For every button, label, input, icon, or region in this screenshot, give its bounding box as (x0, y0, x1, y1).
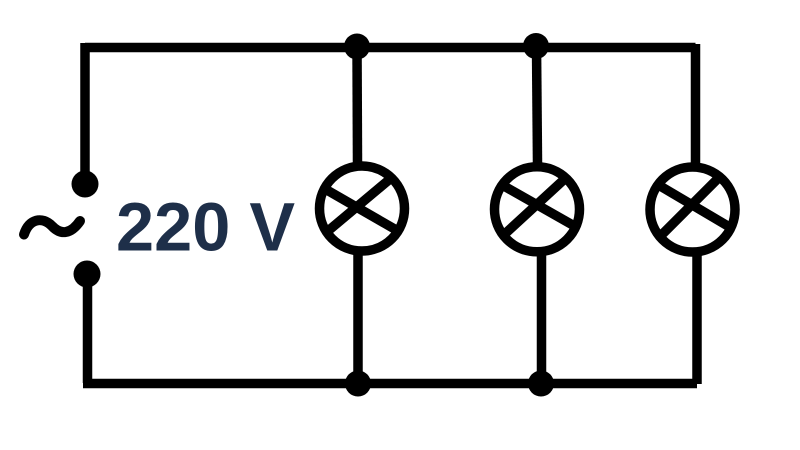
wire left vertical lower (83, 276, 93, 383)
junction dot top lamp1 (344, 34, 370, 60)
junction dot bottom lamp1 (345, 371, 371, 397)
lamp L1 (320, 166, 405, 251)
wire lamp2 upper stub (537, 46, 538, 163)
wire lamp2 lower stub (537, 254, 547, 384)
terminal dot top (72, 171, 99, 198)
terminal dot bottom (74, 261, 101, 288)
wire left vertical upper (80, 43, 90, 180)
wire top bus (85, 43, 696, 53)
wire lamp1 lower stub (353, 254, 363, 384)
lamp L2 (495, 167, 580, 252)
svg-text:220 V: 220 V (116, 189, 295, 266)
wire lamp3 upper stub (691, 44, 701, 163)
lamp L3 (650, 167, 735, 252)
junction dot bottom lamp2 (528, 371, 554, 397)
wire lamp1 upper stub (352, 46, 362, 163)
wire lamp3 lower stub (692, 254, 702, 384)
value label 220 V (116, 189, 295, 266)
ac source tilde (24, 220, 80, 234)
wire bottom bus (83, 379, 697, 389)
junction dot top lamp2 (523, 33, 549, 59)
